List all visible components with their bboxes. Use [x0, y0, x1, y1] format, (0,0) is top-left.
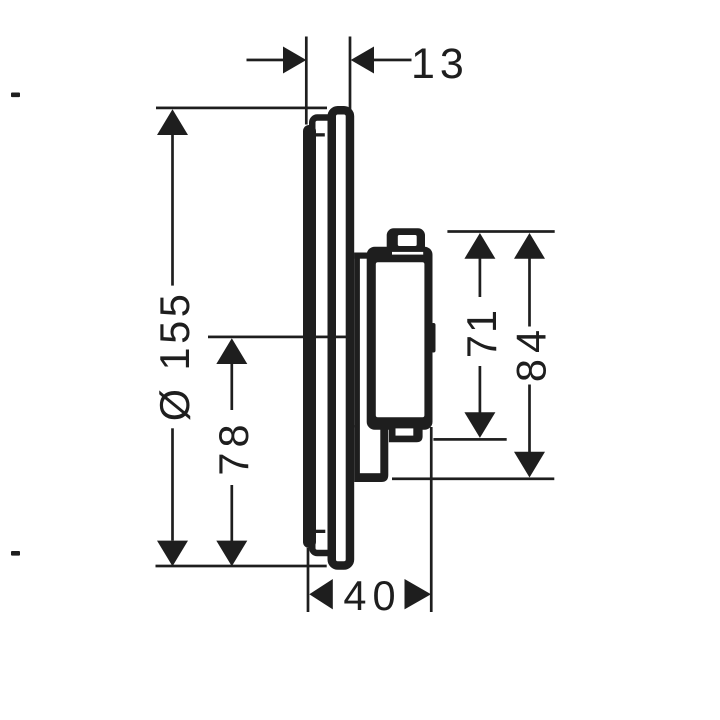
dim 84 bottom extension line — [392, 477, 554, 480]
plate slot divider top — [316, 133, 325, 136]
dim 71 bottom extension line — [433, 438, 506, 441]
front cover plate — [332, 110, 350, 565]
handle bottom step — [389, 422, 423, 442]
dim 71 arrow up — [464, 233, 495, 259]
dim 13 line left segment — [247, 59, 285, 62]
dim 13 arrow right-pointing — [283, 47, 306, 74]
dim 40 extension line right — [430, 427, 433, 612]
dim 13 extension line right — [349, 37, 352, 111]
sleeve top cap — [354, 253, 369, 259]
dim 78 stem bottom — [230, 485, 233, 541]
back plate (wall escutcheon, side view) — [312, 118, 335, 554]
margin dash top-left — [11, 93, 20, 98]
dim 71 stem top — [479, 257, 482, 297]
dim 71 stem bottom — [479, 366, 482, 413]
dim 155/78 bottom extension line — [156, 565, 327, 568]
dim 40 arrow right-pointing — [405, 579, 432, 609]
svg-text:Ø 155: Ø 155 — [151, 291, 198, 422]
svg-text:78: 78 — [210, 419, 257, 475]
svg-text:40: 40 — [343, 572, 401, 619]
dim 78 stem top — [230, 362, 233, 410]
margin dash bottom-left — [11, 551, 20, 556]
dim 155 top extension line — [156, 107, 327, 110]
dim 71 arrow down — [464, 412, 495, 438]
dim 84 arrow down — [514, 452, 545, 478]
svg-text:84: 84 — [508, 324, 555, 382]
dim 84 arrow up — [514, 233, 545, 259]
dim 40 arrow left-pointing — [309, 579, 333, 609]
handle grip ridge — [431, 323, 436, 353]
dim 13 line right segment — [374, 59, 412, 62]
svg-text:71: 71 — [458, 308, 505, 358]
dim 155 arrow up — [157, 109, 188, 135]
mounting collar bar — [303, 125, 316, 548]
handle body — [367, 247, 433, 430]
dim 78 top extension line — [208, 336, 350, 339]
plate slot divider bottom — [316, 530, 326, 533]
svg-text:13: 13 — [411, 40, 469, 88]
dim 13 arrow left-pointing — [351, 47, 374, 74]
handle cap seam — [392, 252, 423, 255]
dim 84 stem bottom — [528, 385, 531, 453]
dim 155 stem bottom — [171, 428, 174, 540]
dim 84 stem top — [528, 257, 531, 327]
dim 155 stem top — [171, 133, 174, 286]
dim 78 arrow up — [216, 338, 247, 364]
lower valve housing — [354, 425, 388, 482]
dim 155 arrow down — [157, 541, 188, 567]
dim 71/84 top extension line — [447, 230, 554, 233]
dim 13 extension line left — [305, 37, 308, 125]
dim 78 arrow down — [216, 541, 247, 567]
sleeve left wall — [354, 253, 360, 428]
dim 40 extension line left — [307, 548, 310, 612]
handle top button — [387, 228, 425, 254]
